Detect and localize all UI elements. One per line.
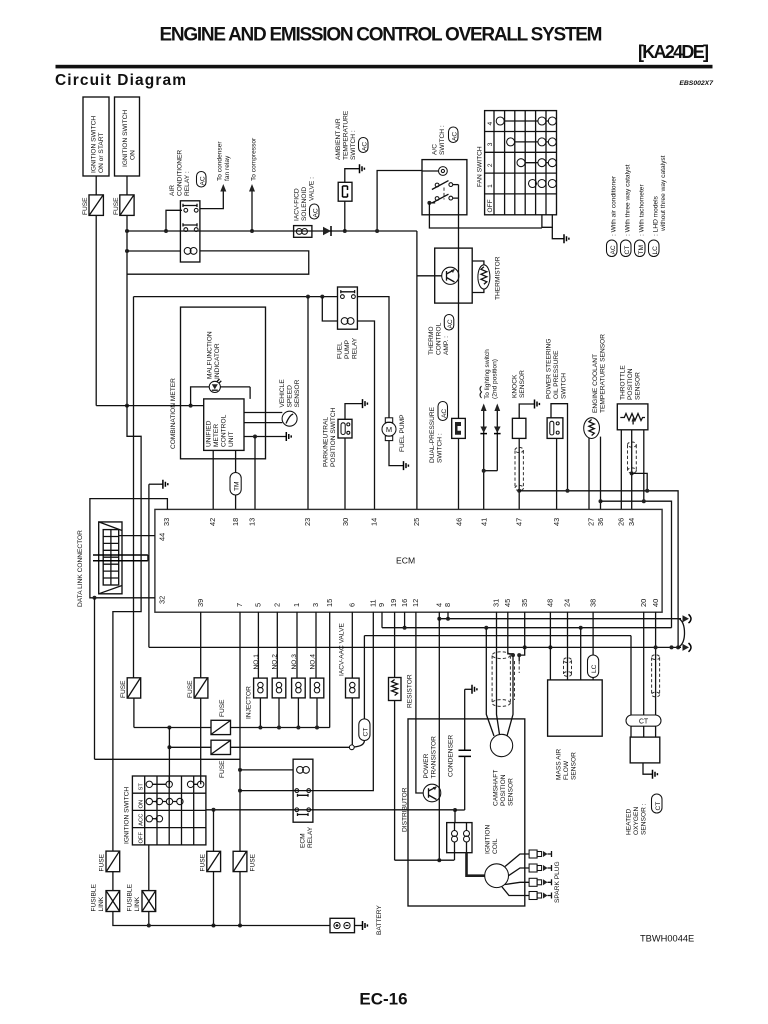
svg-text:9: 9 [377,603,386,607]
fan switch row 4 contacts [496,117,556,125]
svg-text:OXYGEN: OXYGEN [633,807,640,835]
arrow to condenser fan relay [220,184,226,192]
injector NO.2 [272,612,286,730]
TM capsule [230,473,241,496]
node pin23 tap [306,295,310,299]
svg-text:: With air conditioner: : With air conditioner [611,175,618,236]
svg-text:THERMISTOR: THERMISTOR [495,256,502,300]
fusible link 1 [91,883,120,911]
svg-text:DATA LINK CONNECTOR: DATA LINK CONNECTOR [77,530,84,607]
A/C switch dial [422,167,447,176]
svg-text:2: 2 [273,603,282,607]
node F2-meter bus [125,404,129,408]
svg-text:IACV-AAC VALVE: IACV-AAC VALVE [339,623,346,676]
svg-text:Circuit Diagram: Circuit Diagram [55,72,186,89]
bus F6 to IACV-AAC [231,746,350,748]
wire coil left to F2 line [127,250,180,252]
wire F4 to ignition grid [200,698,202,784]
ground unified meter [286,432,291,441]
A/C switch label [432,125,459,155]
fuse F6 horizontal [211,740,231,778]
wire F1 down to meter bus [95,215,97,405]
power steering label [546,339,568,399]
svg-text:COIL: COIL [492,838,499,854]
svg-text:POSITION: POSITION [500,774,507,806]
svg-text:SENSOR: SENSOR [635,372,642,400]
mass air flow sensor box [548,680,603,736]
wire relay coil jog [322,297,337,321]
fuse F7 [200,851,221,871]
wire knock to pin47 [518,438,520,509]
svg-text:ON: ON [139,800,145,809]
svg-text:CT: CT [639,719,649,726]
A/C switch box [422,160,467,215]
wire AC switch through thermo to pin46 [458,215,460,509]
fan switch bottom bracket [542,215,552,228]
wire unified pin42 [212,450,214,509]
svg-text:25: 25 [412,518,421,526]
node relay feed on bus [164,229,168,233]
svg-text:7: 7 [235,603,244,607]
svg-text:AIR: AIR [169,185,176,196]
svg-text:DUAL-PRESSURE: DUAL-PRESSURE [429,406,436,463]
ECM relay feed bus [95,758,241,760]
svg-text:27: 27 [587,518,596,526]
svg-text:SPEED: SPEED [287,385,294,408]
svg-text:3: 3 [311,603,320,607]
node hook-relay feed [93,596,97,600]
wire DLC to pin44 [119,535,155,537]
park/neutral position switch [338,419,352,438]
wire LED to unified box top [249,387,251,399]
svg-text:35: 35 [520,599,529,607]
condenser [448,685,477,810]
camshaft position sensor body [490,734,512,756]
svg-text:: LHD models: : LHD models [653,195,660,236]
svg-text:AMBIENT AIR: AMBIENT AIR [335,118,342,160]
battery box [330,918,355,932]
svg-text:12: 12 [411,599,420,607]
svg-text:DISTRIBUTOR: DISTRIBUTOR [402,787,409,832]
svg-text:TRANSISTOR: TRANSISTOR [431,736,438,779]
bus A pins 4 8 to arrow1 [439,618,681,620]
svg-text:MALFUNCTION: MALFUNCTION [207,331,214,379]
wire F3 to injector bus [133,698,135,727]
fuse F8 [233,851,256,871]
pin45 jog to camshaft [508,612,513,655]
fan switch row 3 contacts [507,138,557,146]
fuse F4 [187,678,208,698]
svg-text:SENSOR: SENSOR [571,752,578,780]
svg-text:EC-16: EC-16 [359,990,407,1009]
ground DLC [163,480,168,489]
svg-text:32: 32 [158,596,167,604]
fuel pump relay label [337,337,359,359]
DLC row wires [93,555,148,561]
svg-text:FLOW: FLOW [563,760,570,780]
sensor bus s2 [601,501,672,628]
wire P/N top to ground [345,404,363,420]
svg-text:16: 16 [400,599,409,607]
wire pin13 [254,437,256,510]
power steering oil pressure switch [547,418,563,439]
svg-text:20: 20 [639,599,648,607]
fusible link 2 [127,883,156,911]
svg-text:POWER: POWER [423,753,430,778]
svg-text:: With tachometer: : With tachometer [639,184,646,236]
wire F9 to fusible link 1 [112,872,114,891]
wire pin20 to oxygen sensor [643,612,645,715]
svg-text:INDICATOR: INDICATOR [214,343,221,379]
fuse F2 [113,195,134,216]
ground fuel pump [404,461,409,470]
spark plugs [529,850,551,900]
wire pin23 [307,297,309,510]
vehicle speed sensor [282,411,297,426]
ignition switch ON or START box [83,97,109,176]
svg-text:AC: AC [447,319,454,328]
svg-text:ON or START: ON or START [98,133,105,173]
bus to F6 [169,746,211,748]
wire relay top contact jog [166,210,182,231]
wire throttle-2 jog to bus s1 [632,473,648,490]
bus B pins 9 16 sensor return [382,612,672,628]
svg-text:FUSE: FUSE [113,197,120,215]
svg-text:RELAY: RELAY [352,337,359,359]
wire AC switch to thermo amp line [458,185,460,215]
main bus y231 from F2 to pin25 corner [127,230,417,232]
wire hook feed down to ECM relay bus [94,598,96,760]
open junction IACV [349,745,354,750]
node condenser coil junction [453,808,457,812]
legend AC [607,175,618,256]
distributor box [408,719,525,906]
park/neutral label [323,407,338,467]
injector NO.4 [309,612,323,730]
svg-text:FUSIBLE: FUSIBLE [91,883,98,911]
engine coolant temperature sensor [584,418,600,439]
svg-text:SOLENOID: SOLENOID [301,187,308,221]
svg-text:RELAY: RELAY [307,826,314,848]
node LED branch [189,404,193,408]
spark plug leads [502,854,529,896]
svg-text:ON: ON [130,150,137,160]
svg-text:IACV-FICD: IACV-FICD [294,188,301,221]
svg-text:ECM: ECM [300,833,307,848]
heated oxygen sensor box [630,737,660,763]
svg-text:KNOCK: KNOCK [512,374,519,398]
svg-text:30: 30 [341,518,350,526]
svg-text:OFF: OFF [139,831,145,843]
svg-text:CT: CT [655,802,662,811]
grid output bus to ECM relay contact [206,809,456,811]
node camshaft branch [484,626,488,630]
svg-text:36: 36 [596,518,605,526]
relay middle contact [183,223,198,231]
wire to ECM relay middle contact then pin11 [240,612,373,791]
svg-text:CONTROL: CONTROL [221,414,228,447]
svg-text:To lighting switch: To lighting switch [484,349,491,399]
coil secondary thick lead to rotor [467,853,485,876]
dual-pressure switch component [452,418,466,438]
svg-text:19: 19 [389,599,398,607]
svg-text:To condenser: To condenser [217,141,224,181]
dashed gang link [443,188,445,200]
to lighting switch label [480,349,499,399]
wire unified to ground with pin13 branch [244,436,286,438]
svg-text:IGNITION SWITCH: IGNITION SWITCH [91,116,98,173]
grid ON row contacts [146,798,183,804]
svg-text:2: 2 [487,163,494,167]
IACV-AAC valve [346,612,360,745]
svg-text:41: 41 [480,518,489,526]
vehicle speed sensor label [279,379,301,408]
wire pin40 to oxygen sensor with shield [655,612,657,715]
wire AC switch feed from bus [377,171,422,232]
svg-text:31: 31 [492,599,501,607]
air conditioner relay box [180,201,200,262]
svg-text:SWITCH :: SWITCH : [437,433,444,463]
power transistor [423,784,441,802]
resistor [389,612,414,861]
fuse F1 [82,195,103,216]
diode on bus [323,226,331,236]
wire P/N to pin30 [344,438,346,509]
bus D ground collector to arrow2 [149,646,681,648]
CT capsule horizontal oxygen [626,715,661,726]
fuel pump relay coil [341,318,354,325]
svg-text:AC: AC [200,176,207,185]
wire PS top wrap to bus [551,404,568,491]
svg-text:LINK: LINK [98,896,105,911]
svg-text:AC: AC [451,132,458,141]
wire to ECM relay coil [240,769,293,771]
svg-text:IGNITION SWITCH: IGNITION SWITCH [124,787,131,844]
svg-text:SPARK PLUG: SPARK PLUG [554,861,561,903]
svg-text:M: M [386,425,392,434]
svg-text:ENGINE COOLANT: ENGINE COOLANT [592,354,599,413]
svg-text:CONDENSER: CONDENSER [448,735,455,777]
svg-text:SENSOR: SENSOR [294,379,301,407]
node relay coil feed [238,768,242,772]
svg-text:33: 33 [162,518,171,526]
svg-text:AC: AC [610,245,617,254]
legend TM [635,184,646,257]
svg-text:6: 6 [348,603,357,607]
svg-text:LINK: LINK [134,896,141,911]
svg-text:VALVE :: VALVE : [309,177,316,201]
fuel pump relay contact [341,290,356,298]
svg-text:RELAY :: RELAY : [184,171,191,196]
heated oxygen sensor label [626,794,663,835]
malfunction indicator label [207,331,222,379]
wire relay contact to fuel pump [357,297,389,418]
sensor shield bus s1 [519,491,678,648]
wire throttle-1 to pin26 [620,430,622,510]
relay top contact [183,204,198,212]
fan switch table [485,111,557,215]
svg-text:AC: AC [441,409,448,418]
wire relay coil to pin14 [357,321,374,509]
thermistor [472,261,490,293]
svg-text:FUSIBLE: FUSIBLE [127,883,134,911]
wire fuel pump to ground [389,441,404,466]
A/C switch contact 1 [432,181,459,190]
svg-text:TBWH0044E: TBWH0044E [640,934,694,944]
legend LC [649,155,668,256]
svg-text:FAN SWITCH: FAN SWITCH [477,146,484,187]
ECM relay coil [297,767,310,774]
hook wire pin33 [90,499,167,598]
svg-text:SWITCH :: SWITCH : [439,125,446,155]
wire throttle-2 through shield to pin34 [631,430,633,510]
node relay contact feed [238,789,242,793]
wire pin25 line [416,231,418,509]
oxygen sensor wires capsule to box [631,726,656,737]
wire unified pin18 through TM [235,450,237,509]
wire relay top contact to condenser fan arrow [200,191,223,209]
ECM relay box [293,759,313,822]
svg-text:EBS002X7: EBS002X7 [679,80,714,87]
wire PS bottom to pin43 [556,438,558,509]
svg-text:IGNITION SWITCH: IGNITION SWITCH [122,110,129,167]
svg-text:47: 47 [514,518,523,526]
wire coil bus stub [454,853,456,861]
fuse F3 [120,678,141,698]
to lighting switch arrows [480,404,500,510]
svg-text:45: 45 [503,599,512,607]
thermo control amp box [435,248,473,303]
fuel pump relay box [338,287,358,329]
wire coolant right to pin36 [600,437,602,510]
wire bracket to ground [552,227,564,238]
ground fan switch [564,234,569,243]
node AC switch feed [375,229,379,233]
svg-text:SENSOR: SENSOR [508,778,515,806]
svg-text:CT: CT [624,246,631,255]
svg-text:A/C: A/C [432,144,439,155]
wire grid feed vertical [168,728,170,785]
ECM relay label [300,826,315,848]
svg-text:15: 15 [325,599,334,607]
wire unified to vss lower [244,422,282,424]
node F7 tap [212,808,216,812]
node knock on shield bus [517,489,521,493]
knock shield dashed [515,447,523,490]
svg-text:AC: AC [361,142,368,151]
bus F1/F2 to unified meter [96,405,204,407]
power transistor label [423,736,438,779]
svg-text:24: 24 [563,599,572,607]
node ambient switch branch [343,229,347,233]
svg-text:[KA24DE]: [KA24DE] [638,42,709,62]
wire pin24 to MAF with shield [567,612,569,680]
wire F7 to battery bus [213,872,215,926]
svg-text:THERMO: THERMO [428,326,435,355]
legend CT [621,164,632,256]
distributor rotor [485,864,509,888]
grid ST row contacts [146,781,204,787]
svg-text:THROTTLE: THROTTLE [620,365,627,400]
svg-text:VEHICLE: VEHICLE [279,379,286,408]
wire up to compressor arrow [251,191,253,231]
off-page arrow 2 [683,643,692,652]
wire pin12 to transistor [416,612,423,793]
svg-text:BATTERY: BATTERY [376,905,383,935]
wire pin15 through bus corner [329,612,331,728]
CT capsule on bypass [354,636,370,747]
svg-text:TEMPERATURE: TEMPERATURE [343,110,350,160]
ignition coil [447,823,472,853]
svg-text:FUSE: FUSE [219,699,226,717]
wire meter top bus from F-line corner to fuel pump relay [134,296,338,298]
engine coolant label [592,334,607,413]
thermo control amp label [428,315,454,356]
svg-text:43: 43 [552,518,561,526]
relay coil [184,248,197,255]
svg-text:SWITCH: SWITCH [561,373,568,399]
malfunction indicator LED [191,379,251,406]
wire throttle-3 to bus s2 [643,430,645,501]
ground ambient [360,164,365,173]
svg-text:(2nd position): (2nd position) [492,359,499,399]
wire unified to vss upper [244,412,282,414]
camshaft label [493,770,515,806]
svg-text:11: 11 [369,599,378,607]
node MAF branch [579,626,583,630]
IACV-FICD solenoid valve [294,226,312,238]
wire ignition B to fuse F2 [126,176,128,195]
svg-text:AMP. :: AMP. : [443,336,450,355]
wire thermo input from pin25 line [417,275,442,277]
svg-text:HEATED: HEATED [626,809,633,835]
svg-text:POWER STEERING: POWER STEERING [546,339,553,399]
svg-text:UNIFIED: UNIFIED [206,420,213,447]
knock sensor [512,418,526,438]
ground battery [363,921,368,930]
svg-text:UNIT: UNIT [228,432,235,447]
unified meter control unit box [204,399,244,451]
throttle shield dashed [628,442,637,473]
node grid feed [167,726,171,730]
svg-text:TEMPERATURE SENSOR: TEMPERATURE SENSOR [600,334,607,413]
node compressor branch [250,229,254,233]
wire knock top to ground [519,404,534,418]
ambient air temperature switch component [338,182,352,201]
svg-text:IGNITION: IGNITION [485,824,492,854]
svg-text:without three way catalyst: without three way catalyst [660,155,667,232]
svg-text:23: 23 [303,518,312,526]
svg-text:ENGINE AND EMISSION CONTROL OV: ENGINE AND EMISSION CONTROL OVERALL SYST… [160,25,603,46]
svg-text:POSITION: POSITION [627,368,634,400]
wire oxygen sensor to ground [643,763,653,774]
svg-text:CONTROL: CONTROL [436,322,443,355]
grid ACC row contacts [146,816,162,822]
svg-text:FUSE: FUSE [200,853,207,871]
wire ground stub DLC [149,483,163,485]
wire battery to ground [355,925,363,927]
svg-text:39: 39 [196,599,205,607]
ignition switch grid [132,776,206,845]
svg-text:SENSOR: SENSOR [519,370,526,398]
svg-text:26: 26 [617,518,626,526]
svg-text:CAMSHAFT: CAMSHAFT [493,770,500,806]
svg-text:FUEL PUMP: FUEL PUMP [399,414,406,452]
wire coil right return loop [127,251,309,274]
bus F5 to injectors [231,727,330,729]
wire pin48 to MAF [549,647,551,680]
wire coolant left to pin27 [588,438,590,510]
